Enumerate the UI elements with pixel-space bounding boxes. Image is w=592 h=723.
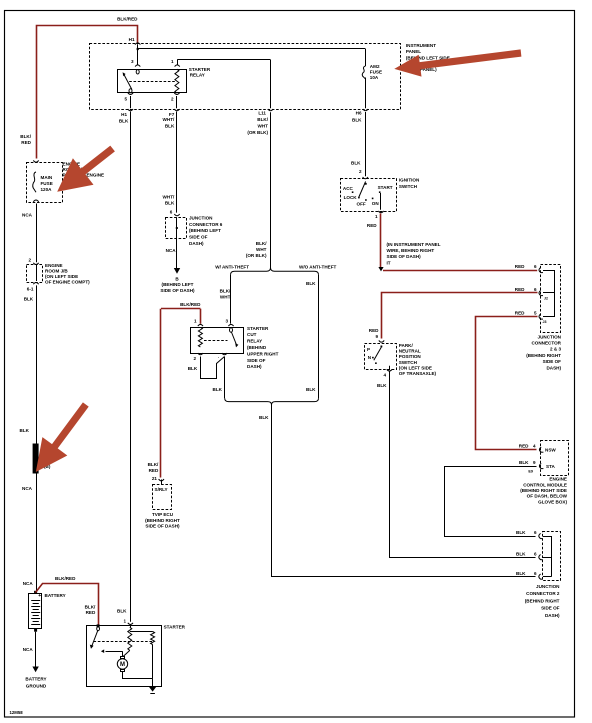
svg-text:OFF: OFF xyxy=(357,201,366,206)
svg-text:(BEHIND LEFT: (BEHIND LEFT xyxy=(162,282,194,287)
svg-text:4: 4 xyxy=(383,372,386,377)
svg-text:RED: RED xyxy=(149,468,159,473)
svg-text:RED: RED xyxy=(519,444,529,449)
svg-text:(BEHIND RIGHT: (BEHIND RIGHT xyxy=(145,518,180,523)
svg-text:BLK: BLK xyxy=(119,119,129,124)
svg-text:1: 1 xyxy=(171,59,174,64)
svg-text:WHT/: WHT/ xyxy=(163,117,175,122)
svg-text:RED: RED xyxy=(21,140,31,145)
svg-text:·: · xyxy=(218,355,220,360)
svg-text:(BEHIND LEFT: (BEHIND LEFT xyxy=(189,228,221,233)
svg-text:SIDE OF: SIDE OF xyxy=(541,606,560,611)
svg-text:UPPER RIGHT: UPPER RIGHT xyxy=(247,351,279,356)
svg-text:BLK: BLK xyxy=(117,609,127,614)
svg-text:BLK: BLK xyxy=(516,571,526,576)
svg-text:(BEHIND: (BEHIND xyxy=(247,345,267,350)
svg-text:GLOVE BOX): GLOVE BOX) xyxy=(538,499,567,504)
svg-text:1: 1 xyxy=(375,214,378,219)
svg-text:RED: RED xyxy=(86,610,96,615)
svg-text:BLK: BLK xyxy=(351,160,361,165)
svg-text:GROUND: GROUND xyxy=(26,684,47,689)
svg-text:DASH): DASH) xyxy=(546,365,561,370)
svg-text:J3: J3 xyxy=(543,320,547,324)
svg-text:BLK/: BLK/ xyxy=(20,134,31,139)
svg-text:WHT: WHT xyxy=(220,294,231,299)
svg-text:WHT: WHT xyxy=(258,123,269,128)
svg-text:CONNECTOR: CONNECTOR xyxy=(531,341,561,346)
svg-text:BLK: BLK xyxy=(188,366,198,371)
svg-text:BATTERY: BATTERY xyxy=(45,593,66,598)
svg-text:BLK: BLK xyxy=(516,551,526,556)
svg-text:BLK: BLK xyxy=(165,201,175,206)
svg-text:PANEL: PANEL xyxy=(406,49,421,54)
svg-text:NEUTRAL: NEUTRAL xyxy=(399,349,421,354)
svg-text:BLK/RED: BLK/RED xyxy=(117,17,138,22)
svg-text:BLK: BLK xyxy=(519,460,529,465)
svg-text:2: 2 xyxy=(171,97,174,102)
svg-text:6: 6 xyxy=(534,551,537,556)
svg-text:SIDE OF DASH): SIDE OF DASH) xyxy=(160,288,195,293)
svg-text:6: 6 xyxy=(534,530,537,535)
svg-text:IT: IT xyxy=(387,260,391,265)
svg-text:NCA: NCA xyxy=(22,486,33,491)
svg-text:ENGINE: ENGINE xyxy=(549,477,567,482)
svg-text:BLK: BLK xyxy=(213,387,223,392)
svg-text:BLK: BLK xyxy=(165,123,175,128)
svg-text:JUNCTION: JUNCTION xyxy=(538,334,562,339)
svg-text:OF ENGINE COMPT): OF ENGINE COMPT) xyxy=(45,279,90,284)
svg-text:3: 3 xyxy=(131,59,134,64)
svg-text:12M58: 12M58 xyxy=(10,710,24,715)
svg-text:10A: 10A xyxy=(370,75,379,80)
svg-text:JUNCTION: JUNCTION xyxy=(189,216,213,221)
svg-text:STARTER: STARTER xyxy=(247,326,269,331)
svg-text:6: 6 xyxy=(534,571,537,576)
svg-text:DASH): DASH) xyxy=(247,364,262,369)
svg-text:6: 6 xyxy=(534,287,537,292)
svg-text:(IN INSTRUMENT PANEL: (IN INSTRUMENT PANEL xyxy=(387,242,441,247)
svg-text:NCA: NCA xyxy=(166,248,177,253)
svg-text:NCA: NCA xyxy=(23,581,34,586)
svg-text:CONNECTOR 2: CONNECTOR 2 xyxy=(526,591,560,596)
svg-text:ON: ON xyxy=(372,201,380,206)
svg-text:2: 2 xyxy=(28,258,31,263)
svg-text:BLK: BLK xyxy=(20,428,30,433)
svg-text:SIDE OF DASH): SIDE OF DASH) xyxy=(387,254,422,259)
svg-text:BLK: BLK xyxy=(306,281,316,286)
svg-text:ROOM J/B: ROOM J/B xyxy=(45,268,68,273)
svg-text:SIDE OF DASH): SIDE OF DASH) xyxy=(145,523,180,528)
svg-text:(BEHIND RIGHT: (BEHIND RIGHT xyxy=(526,353,561,358)
svg-text:120A: 120A xyxy=(41,187,53,192)
svg-text:BLK/: BLK/ xyxy=(148,462,159,467)
svg-text:RELAY: RELAY xyxy=(190,73,205,78)
svg-text:IGNITION: IGNITION xyxy=(399,178,420,183)
svg-text:WIRE, BEHIND RIGHT: WIRE, BEHIND RIGHT xyxy=(387,248,435,253)
svg-text:BLK/: BLK/ xyxy=(85,604,96,609)
svg-text:START: START xyxy=(378,185,393,190)
svg-text:OF TRANSAXLE): OF TRANSAXLE) xyxy=(399,371,437,376)
svg-text:BLK: BLK xyxy=(377,383,387,388)
svg-text:2 & 3: 2 & 3 xyxy=(550,347,561,352)
svg-text:NCA: NCA xyxy=(23,647,34,652)
svg-text:BLK/RED: BLK/RED xyxy=(180,302,201,307)
svg-text:6-1: 6-1 xyxy=(27,287,34,292)
svg-text:STA: STA xyxy=(546,464,556,469)
svg-text:(OR BLK): (OR BLK) xyxy=(246,253,267,258)
svg-text:INSTRUMENT: INSTRUMENT xyxy=(406,43,436,48)
svg-text:CONTROL MODULE: CONTROL MODULE xyxy=(523,482,567,487)
svg-text:RED: RED xyxy=(515,287,525,292)
svg-text:RED: RED xyxy=(367,223,377,228)
svg-text:(OR BLK): (OR BLK) xyxy=(247,130,268,135)
svg-text:H1: H1 xyxy=(129,37,135,42)
svg-text:DASH): DASH) xyxy=(189,241,204,246)
svg-text:AM2: AM2 xyxy=(370,64,380,69)
svg-text:2: 2 xyxy=(193,356,196,361)
svg-text:W/O ANTI-THEFT: W/O ANTI-THEFT xyxy=(299,264,337,269)
svg-text:BLK: BLK xyxy=(516,530,526,535)
svg-text:ENGINE: ENGINE xyxy=(45,263,63,268)
svg-text:FUSE: FUSE xyxy=(370,70,382,75)
svg-text:BLK: BLK xyxy=(259,415,269,420)
svg-text:5: 5 xyxy=(124,97,127,102)
svg-text:NCA: NCA xyxy=(22,212,33,217)
svg-text:6: 6 xyxy=(170,209,173,214)
svg-text:CONNECTOR 6: CONNECTOR 6 xyxy=(189,222,223,227)
svg-text:STARTER: STARTER xyxy=(164,624,186,629)
svg-text:BLK/: BLK/ xyxy=(257,117,268,122)
svg-text:+: + xyxy=(38,593,41,599)
svg-text:E9: E9 xyxy=(528,470,533,474)
svg-text:SWITCH: SWITCH xyxy=(399,360,418,365)
svg-text:(BEHIND RIGHT SIDE: (BEHIND RIGHT SIDE xyxy=(520,488,567,493)
svg-text:BLK: BLK xyxy=(24,296,34,301)
svg-text:6: 6 xyxy=(534,264,537,269)
svg-text:J2: J2 xyxy=(544,296,548,300)
svg-text:BLK/: BLK/ xyxy=(220,289,231,294)
svg-text:POSITION: POSITION xyxy=(399,354,422,359)
svg-text:STARTER: STARTER xyxy=(189,67,211,72)
svg-text:P: P xyxy=(367,347,370,352)
svg-text:RED: RED xyxy=(515,264,525,269)
svg-text:H6: H6 xyxy=(356,111,362,116)
svg-text:JUNCTION: JUNCTION xyxy=(536,584,560,589)
svg-text:CUT: CUT xyxy=(247,332,257,337)
svg-text:RED: RED xyxy=(369,328,379,333)
svg-text:(ON LEFT SIDE: (ON LEFT SIDE xyxy=(399,365,432,370)
svg-text:OF DASH, BELOW: OF DASH, BELOW xyxy=(527,494,568,499)
svg-text:LOCK: LOCK xyxy=(344,195,358,200)
svg-text:SWITCH: SWITCH xyxy=(399,184,418,189)
svg-text:NSW: NSW xyxy=(545,448,556,453)
svg-text:WHT/: WHT/ xyxy=(163,194,175,199)
svg-text:3: 3 xyxy=(225,319,228,324)
svg-text:M: M xyxy=(120,662,125,668)
svg-text:W/ ANTI-THEFT: W/ ANTI-THEFT xyxy=(215,264,249,269)
svg-text:21: 21 xyxy=(152,476,158,481)
svg-text:SIDE OF: SIDE OF xyxy=(543,359,562,364)
svg-text:DASH): DASH) xyxy=(545,613,560,618)
svg-text:TVIP ECU: TVIP ECU xyxy=(152,512,174,517)
svg-text:2: 2 xyxy=(359,169,362,174)
svg-text:RED: RED xyxy=(515,311,525,316)
svg-text:9: 9 xyxy=(533,460,536,465)
svg-text:BLK: BLK xyxy=(306,387,316,392)
svg-text:(BEHIND RIGHT: (BEHIND RIGHT xyxy=(525,598,560,603)
svg-text:5: 5 xyxy=(534,311,537,316)
svg-text:4: 4 xyxy=(533,444,536,449)
svg-text:WHT: WHT xyxy=(256,247,267,252)
svg-text:SIDE OF: SIDE OF xyxy=(189,235,208,240)
svg-text:BLK/: BLK/ xyxy=(256,241,267,246)
svg-text:ACC: ACC xyxy=(343,186,354,191)
svg-text:RELAY: RELAY xyxy=(247,339,262,344)
svg-text:9: 9 xyxy=(375,334,378,339)
svg-text:BATTERY: BATTERY xyxy=(25,677,46,682)
svg-text:H1: H1 xyxy=(121,112,127,117)
svg-text:FUSE: FUSE xyxy=(41,181,53,186)
svg-text:BLK: BLK xyxy=(352,118,362,123)
svg-text:BLK/RED: BLK/RED xyxy=(55,576,76,581)
svg-text:S/RLY: S/RLY xyxy=(155,487,168,492)
svg-text:L11: L11 xyxy=(258,111,266,116)
svg-text:SIDE OF: SIDE OF xyxy=(247,358,266,363)
svg-text:(ON LEFT SIDE: (ON LEFT SIDE xyxy=(45,274,78,279)
svg-text:PARK/: PARK/ xyxy=(399,343,414,348)
svg-text:MAIN: MAIN xyxy=(41,175,53,180)
svg-text:1: 1 xyxy=(194,319,197,324)
